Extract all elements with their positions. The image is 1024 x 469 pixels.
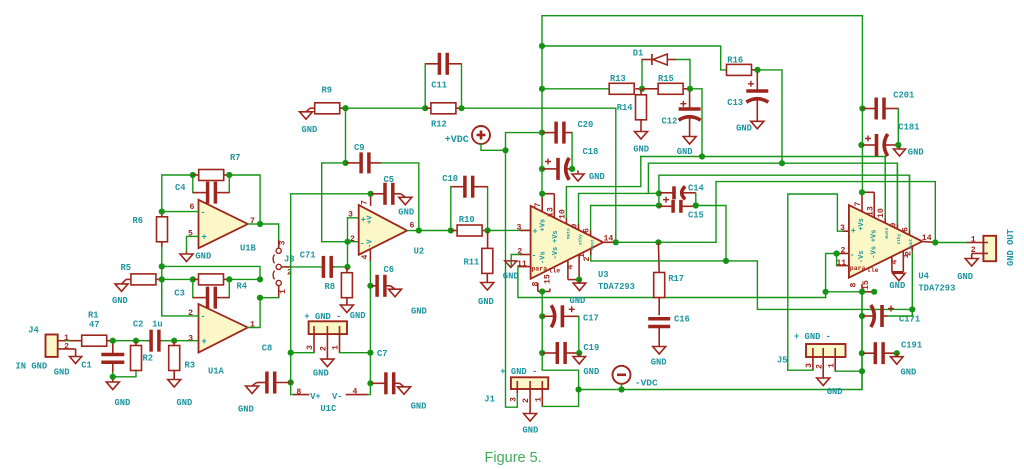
svg-text:C13: C13 [727, 98, 743, 108]
wire R4 row to J3 col [229, 278, 260, 280]
resistor R17 [654, 242, 665, 315]
svg-text:C7: C7 [377, 349, 388, 359]
pin 7 U1B [250, 217, 255, 226]
label +VDC [445, 135, 469, 146]
svg-text:GND: GND [908, 148, 924, 158]
node C18 right [569, 166, 575, 172]
pin 10 U3 [559, 209, 568, 219]
pin 3 P1 [306, 345, 315, 350]
resistor R12 [425, 103, 461, 114]
pin 2 U4 wire [837, 253, 849, 255]
node C181 right [895, 142, 901, 148]
node R17 top [655, 239, 661, 245]
wire J3 pin2 to C71 [291, 266, 322, 268]
node U4 -Vs a [859, 289, 865, 295]
node R12 left [422, 105, 428, 111]
node C201 left [859, 105, 865, 111]
node C1 bottom [110, 374, 116, 380]
wire C14 right riser [696, 206, 726, 261]
label C71 [300, 251, 316, 261]
ground J4 pin2 [70, 353, 82, 364]
resistor R15 [642, 83, 690, 94]
svg-text:+VDC: +VDC [445, 135, 469, 146]
pin 1 J3 [279, 289, 288, 294]
label C201 [893, 91, 914, 101]
ground U4 pins [893, 272, 906, 281]
node mute [699, 153, 705, 159]
svg-text:R5: R5 [121, 263, 132, 273]
svg-text:+: + [202, 232, 207, 242]
svg-text:C1: C1 [81, 361, 92, 371]
label R6 [133, 216, 144, 226]
connector J5 [806, 344, 846, 376]
wire D1 right [676, 60, 690, 89]
label GND C7 [411, 402, 427, 412]
label U1A [208, 367, 225, 377]
ground C1 [106, 380, 119, 390]
label C6 [384, 265, 395, 275]
svg-text:V-: V- [332, 392, 343, 402]
wire P1 pin3 [291, 352, 314, 354]
svg-text:-: - [202, 311, 205, 321]
pin 3 U4 [840, 224, 845, 233]
diode D1 [642, 54, 676, 89]
label GND C5 [398, 208, 414, 218]
resistor R14 [636, 89, 647, 129]
svg-text:8: 8 [296, 388, 301, 397]
label J3 [284, 255, 295, 265]
svg-text:R3: R3 [185, 361, 196, 371]
label J5 [777, 356, 788, 366]
capacitor C14 [659, 186, 696, 202]
node bus 279 [257, 276, 263, 282]
label C20 [578, 120, 594, 130]
capacitor C16 [648, 319, 670, 345]
svg-text:7: 7 [854, 202, 863, 207]
label GND P1 [313, 369, 329, 379]
svg-text:GND: GND [350, 311, 366, 321]
wire C171 right [888, 315, 913, 317]
svg-text:1: 1 [535, 397, 544, 402]
wire U2 pin4 down [369, 262, 371, 286]
svg-text:C201: C201 [893, 91, 914, 101]
svg-text:C71: C71 [300, 251, 316, 261]
svg-text:1: 1 [827, 363, 836, 368]
pin 8 U4 [849, 283, 858, 288]
svg-text:3: 3 [510, 397, 519, 402]
caption Figure 5. [485, 450, 542, 466]
node U3 -Vs [539, 288, 545, 294]
svg-text:2: 2 [971, 246, 976, 255]
svg-text:6: 6 [190, 203, 195, 212]
pin 2 J3 [287, 269, 292, 278]
svg-text:10: 10 [877, 208, 886, 218]
ground J5 pin2 [817, 376, 830, 386]
wire U2 pin2 loop [322, 163, 348, 242]
ground C8 [246, 383, 259, 394]
label C2 [133, 320, 144, 330]
svg-text:15: 15 [544, 274, 553, 284]
svg-text:C4: C4 [175, 183, 186, 193]
svg-text:3: 3 [188, 334, 193, 343]
node R9 right [342, 105, 348, 111]
svg-text:U1A: U1A [208, 367, 225, 377]
svg-text:14: 14 [604, 235, 614, 244]
svg-text:4: 4 [353, 387, 358, 396]
svg-text:3: 3 [306, 345, 315, 350]
wire C201 right [897, 109, 899, 146]
wire J1 pin1 [542, 390, 578, 407]
label U1C [320, 404, 337, 414]
svg-text:D1: D1 [633, 49, 644, 59]
svg-text:Figure 5.: Figure 5. [485, 450, 542, 466]
wire C20 right [571, 133, 573, 169]
wire to U1A plus [174, 340, 198, 342]
capacitor C191 [862, 342, 897, 364]
pin 11 U4 wire [837, 254, 849, 266]
svg-text:GND: GND [736, 124, 752, 134]
ground J1 pin2 [524, 406, 537, 421]
label GND C12 [677, 147, 693, 157]
svg-text:4: 4 [566, 265, 575, 270]
node R10 left [448, 227, 454, 233]
pin 15 U3 [544, 274, 553, 284]
svg-text:lle: lle [549, 268, 561, 275]
pin 6 U2 [410, 221, 415, 230]
ground C7 [398, 383, 411, 394]
node U4 out [932, 239, 938, 245]
svg-text:IN GND: IN GND [16, 361, 48, 371]
svg-text:1: 1 [279, 289, 288, 294]
wire J5 pin3 [788, 369, 813, 371]
label GND C18 [589, 172, 605, 182]
node U2 pin7 [368, 191, 374, 197]
pin 4 U2 [361, 255, 370, 260]
label TDA7293 U4 [918, 284, 955, 294]
svg-text:R13: R13 [610, 74, 626, 84]
pin 3 U3 wire [520, 229, 531, 231]
pin 2 J2 [971, 246, 976, 255]
capacitor C181 [862, 134, 898, 156]
label C8 [262, 344, 273, 354]
label R10 [459, 215, 475, 225]
node U3 +Vs [539, 191, 545, 197]
svg-text:GND: GND [889, 281, 905, 291]
svg-text:GND: GND [54, 368, 70, 378]
wire C71 to R8 [335, 266, 348, 268]
pin 7 U2 [361, 200, 370, 205]
node R6 top [159, 209, 165, 215]
svg-text:R8: R8 [325, 282, 336, 292]
capacitor C13 [746, 73, 768, 121]
label J1 [484, 395, 495, 405]
resistor R4 [193, 274, 230, 285]
svg-text:U3: U3 [598, 270, 609, 280]
svg-text:J5: J5 [777, 356, 788, 366]
svg-text:GND: GND [398, 208, 414, 218]
pin 4 U3 [566, 265, 575, 270]
label C17 [583, 314, 599, 324]
label + GND - J5 [794, 332, 831, 342]
svg-text:stby: stby [896, 233, 902, 244]
resistor R3 [169, 341, 180, 377]
power -VDC [613, 366, 631, 384]
svg-text:C10: C10 [442, 174, 458, 184]
pin 9 U3 riser [579, 163, 649, 229]
connector J1 [511, 377, 548, 406]
pin 15 U4 [862, 280, 871, 290]
wire C14C15 bus [659, 175, 910, 234]
svg-text:+Vs: +Vs [540, 219, 548, 232]
pin 7 U3 stub [542, 194, 554, 218]
label R12 [431, 120, 447, 130]
wire J4 to R1 [66, 340, 69, 342]
capacitor C20 [542, 122, 572, 144]
svg-text:2: 2 [522, 398, 531, 403]
wire P1 pin1 [340, 352, 371, 354]
node C18 left [539, 166, 545, 172]
op-amp U1B [199, 200, 248, 248]
label C7 [377, 349, 388, 359]
label C19 [583, 343, 599, 353]
node U3 gnd pins [576, 277, 582, 283]
node J5 pin1 tee [859, 368, 865, 374]
pin 14 U4 stub [922, 241, 935, 242]
svg-text:R10: R10 [459, 215, 475, 225]
power pins U1C [293, 394, 368, 396]
svg-text:11: 11 [836, 259, 846, 268]
label C181 [898, 123, 919, 133]
svg-text:TDA7293: TDA7293 [598, 282, 635, 292]
svg-text:47: 47 [89, 320, 100, 330]
svg-text:9: 9 [571, 224, 580, 229]
pin 11 U3 [517, 260, 527, 269]
node U4 -Vs b [871, 289, 877, 295]
pin 10 U4 stub [884, 157, 886, 224]
connector P1 [309, 321, 347, 357]
label GND R3 [177, 398, 193, 408]
node rail1 [539, 43, 545, 49]
label GND C19 [583, 367, 599, 377]
svg-text:-: - [851, 249, 854, 259]
node -VDC left [576, 386, 582, 392]
label IN GND [16, 361, 48, 371]
svg-text:R4: R4 [237, 282, 248, 292]
svg-text:stby: stby [578, 234, 584, 245]
svg-text:GND: GND [583, 367, 599, 377]
label + GND - J1 [500, 367, 537, 377]
svg-text:-Vs: -Vs [870, 246, 878, 259]
label GND U3 pins [570, 296, 586, 306]
value 1u [152, 320, 163, 330]
node R5-R6 [159, 276, 165, 282]
node R8 top [344, 264, 350, 270]
svg-text:-VDC: -VDC [635, 378, 658, 389]
svg-text:R15: R15 [658, 74, 674, 84]
wire R7 left col [162, 175, 193, 212]
wire mute bus [641, 157, 885, 224]
pin 1 U3 stub [590, 249, 592, 261]
pin 2 U2 [350, 235, 355, 244]
capacitor C1 [101, 344, 124, 373]
svg-text:GND: GND [503, 272, 519, 282]
svg-text:U1C: U1C [320, 404, 337, 414]
svg-text:GND: GND [302, 125, 318, 135]
capacitor C71 [322, 256, 334, 278]
svg-text:GND: GND [651, 358, 667, 368]
wire R2 to C2 [136, 340, 148, 342]
svg-text:2: 2 [841, 247, 846, 256]
capacitor C17 [542, 305, 579, 327]
pin 10 U3 riser [566, 157, 640, 224]
svg-text:C12: C12 [662, 117, 678, 127]
wire R1 to R2 [113, 340, 136, 342]
resistor R7 [193, 170, 230, 181]
svg-text:lle: lle [867, 267, 879, 274]
svg-text:mute: mute [884, 227, 890, 238]
wire C9 right [381, 163, 419, 231]
wire U4 in loop [826, 254, 837, 298]
pin 3 J1 [510, 397, 519, 402]
wire U1B minus [162, 211, 199, 213]
label GND U1B [195, 252, 211, 262]
label C171 [899, 315, 920, 325]
svg-text:2: 2 [815, 364, 824, 369]
wire -Vs col U4 [861, 292, 863, 390]
svg-text:C3: C3 [174, 289, 185, 299]
svg-text:C181: C181 [898, 123, 919, 133]
wire out riser [716, 182, 935, 243]
capacitor C171 [862, 305, 894, 327]
pin 7 U4 [854, 202, 863, 207]
pin 1g U3 [578, 253, 587, 258]
label C11 [431, 81, 447, 91]
pin 1 J4 [64, 334, 69, 343]
capacitor C9 [346, 152, 382, 173]
node C9 left [342, 160, 348, 166]
node C15 right [693, 202, 699, 208]
wire C2 to R3 [162, 340, 174, 342]
pin 2 J1 [522, 398, 531, 403]
capacitor C7 [370, 372, 399, 394]
ground C12 [683, 135, 696, 144]
label R2 [143, 354, 154, 364]
ground C13 [751, 121, 764, 129]
label J4 [28, 326, 39, 336]
ground C19 [573, 353, 586, 364]
pin 2 U3 wire [511, 255, 530, 267]
svg-text:8: 8 [532, 282, 541, 287]
wire to R16 [542, 46, 726, 70]
wire +Vs column [541, 16, 543, 194]
svg-text:1: 1 [332, 345, 341, 350]
label GND J2 [957, 272, 973, 282]
node stby [779, 160, 785, 166]
pin 2 P1 [319, 346, 328, 351]
svg-text:C15: C15 [688, 211, 704, 221]
label R7 [230, 153, 241, 163]
wire C12 node right [690, 89, 702, 157]
power +VDC [472, 126, 490, 144]
label U3 [598, 270, 609, 280]
label C4 [175, 183, 186, 193]
label TDA7293 U3 [598, 282, 635, 292]
svg-text:J4: J4 [28, 326, 39, 336]
pin 6 U3 riser [591, 206, 659, 236]
wire U2 pin3 [348, 217, 359, 219]
ground C181 [894, 147, 906, 157]
node R4 left [190, 276, 196, 282]
wire R12 to U3 out [462, 108, 616, 242]
label R9 [322, 86, 333, 96]
wire C14 right [695, 193, 697, 205]
node U4 pin2 [834, 250, 840, 256]
svg-text:3: 3 [348, 211, 353, 220]
pin 3 J5 [805, 363, 814, 368]
node C14 left [656, 190, 662, 196]
wire R5 to R4 [162, 278, 193, 280]
svg-text:2: 2 [904, 251, 913, 256]
svg-text:+: + [851, 225, 856, 235]
label GND C16 [651, 358, 667, 368]
capacitor C4 [193, 175, 230, 204]
wire to R10 [419, 230, 451, 232]
wire R6 bottom feedback [161, 247, 163, 316]
pin 13 U4 [866, 206, 875, 216]
ground R14 [635, 129, 648, 139]
resistor R11 [482, 231, 493, 281]
svg-text:2: 2 [319, 346, 328, 351]
svg-text:R14: R14 [617, 103, 634, 113]
node in1 [110, 338, 116, 344]
wire stby bus [648, 163, 897, 229]
label GND U4 pins [889, 281, 905, 291]
wire C8 col [291, 353, 293, 395]
label GND R8 [350, 311, 366, 321]
label C12 [662, 117, 678, 127]
node U2 pin2 tee [344, 239, 350, 245]
pin 4 U4 [890, 260, 899, 265]
svg-text:-V: -V [367, 239, 375, 248]
label GND OUT [1006, 228, 1016, 266]
ground R3 [168, 377, 181, 387]
label R8 [325, 282, 336, 292]
resistor R8 [341, 267, 352, 304]
svg-text:2: 2 [350, 235, 355, 244]
wire -VDC stem [621, 384, 623, 390]
svg-text:8: 8 [849, 283, 858, 288]
value 47 [89, 320, 100, 330]
node C7 col a [367, 350, 373, 356]
pin 14 U3 stub [603, 241, 616, 243]
pin 9 U4 [889, 223, 898, 228]
node C191 right [894, 350, 900, 356]
capacitor C10 [451, 176, 488, 231]
pin 4 U3 stub [568, 256, 579, 280]
ground R9 [300, 108, 313, 119]
label C10 [442, 174, 458, 184]
svg-text:GND: GND [633, 145, 649, 155]
label R13 [610, 74, 626, 84]
wire to R13 [542, 88, 608, 90]
label GND C13 [736, 124, 752, 134]
resistor R9 [310, 103, 346, 114]
svg-text:C18: C18 [583, 147, 599, 157]
op-amp U3 TDA7293 [531, 206, 604, 279]
pin 11 U4 [836, 259, 846, 268]
svg-text:GND: GND [589, 172, 605, 182]
wire +VDC down [481, 144, 506, 150]
